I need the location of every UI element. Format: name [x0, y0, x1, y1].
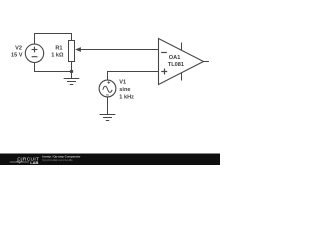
svg-text:1 kΩ: 1 kΩ — [51, 52, 64, 58]
svg-text:V2: V2 — [15, 45, 22, 51]
svg-text:LAB: LAB — [30, 160, 38, 165]
wire R1 bottom to junction — [71, 62, 73, 73]
wire V1 top to op-amp non-inverting input — [108, 72, 159, 81]
wiper arrowhead — [75, 47, 81, 52]
ground (below R1) — [64, 72, 80, 85]
label V2 15 V — [11, 45, 23, 58]
wire V2 bottom to junction — [35, 62, 72, 71]
label V1 sine 1 kHz — [119, 79, 134, 100]
voltage source V1 (sine) — [99, 80, 116, 97]
op-amp OA1 triangle — [159, 39, 204, 85]
footer logo wire line — [10, 161, 29, 163]
wire V1 bottom to ground — [107, 97, 109, 115]
voltage source V2 — [25, 44, 43, 62]
ground (below V1) — [100, 115, 116, 121]
svg-text:TL081: TL081 — [168, 62, 184, 68]
svg-text:V1: V1 — [119, 79, 126, 85]
svg-text:1 kHz: 1 kHz — [119, 94, 134, 100]
svg-text:OA1: OA1 — [169, 55, 181, 61]
svg-text:http://circuitlab.com/c6vu48p: http://circuitlab.com/c6vu48p — [42, 159, 73, 162]
footer logo component mark — [17, 161, 23, 163]
wire V2 top to R1 top — [35, 34, 72, 45]
footer bar — [0, 154, 220, 166]
svg-text:brentp / Op-amp Comparator: brentp / Op-amp Comparator — [42, 155, 81, 159]
op-amp inverting input minus sign — [161, 52, 167, 54]
node junction dot — [70, 70, 73, 73]
label R1 1 kOhm — [51, 45, 64, 58]
svg-text:R1: R1 — [55, 45, 62, 51]
op-amp output pin — [204, 61, 210, 63]
op-amp positive supply pin — [181, 43, 183, 51]
svg-text:15 V: 15 V — [11, 52, 23, 58]
label OA1 TL081 — [168, 55, 184, 68]
resistor R1 (potentiometer body) — [69, 41, 75, 62]
op-amp non-inverting input plus sign — [161, 71, 167, 73]
op-amp negative supply pin — [181, 73, 183, 81]
wire wiper to op-amp inverting input — [76, 49, 159, 51]
svg-text:sine: sine — [119, 87, 130, 93]
